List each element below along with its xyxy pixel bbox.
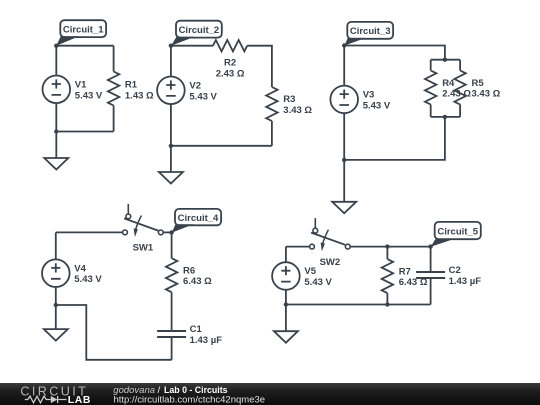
resistor R2 <box>213 40 247 79</box>
ground circuit 3 <box>332 160 356 213</box>
switch SW1 <box>123 204 164 254</box>
svg-text:R4: R4 <box>442 78 455 89</box>
node Circuit_2 label <box>169 21 222 48</box>
svg-text:Circuit_2: Circuit_2 <box>179 25 220 36</box>
capacitor C1 <box>157 324 222 360</box>
wire bottom circuit 1 <box>54 129 114 133</box>
svg-text:V4: V4 <box>74 263 86 274</box>
svg-text:6.43 Ω: 6.43 Ω <box>183 276 212 287</box>
svg-text:R1: R1 <box>125 80 138 91</box>
svg-text:5.43 V: 5.43 V <box>304 277 332 288</box>
wire top-right circuit 2 <box>247 46 272 87</box>
ground circuit 2 <box>159 146 183 184</box>
wire top circuit 1 <box>56 45 113 47</box>
svg-text:Circuit_3: Circuit_3 <box>350 26 391 37</box>
wire bottom circuit 4 <box>56 305 172 360</box>
footer title line <box>113 385 227 396</box>
footer bar <box>0 383 540 405</box>
resistor R4 <box>425 60 471 117</box>
svg-text:Circuit_4: Circuit_4 <box>178 213 219 224</box>
svg-text:LAB: LAB <box>68 395 91 405</box>
svg-text:Circuit_1: Circuit_1 <box>63 24 104 35</box>
svg-text:1.43 µF: 1.43 µF <box>449 276 482 287</box>
resistor R5 <box>454 60 500 117</box>
voltage source V2 <box>157 46 217 146</box>
resistor R7 <box>382 247 428 305</box>
svg-text:V5: V5 <box>304 266 316 277</box>
svg-text:5.43 V: 5.43 V <box>75 90 103 101</box>
svg-text:http://circuitlab.com/ctchc42n: http://circuitlab.com/ctchc42nqme3e <box>114 394 266 405</box>
voltage source V3 <box>330 46 390 160</box>
wire top circuit 5 <box>286 246 310 248</box>
wire bottom circuit 2 <box>169 144 272 148</box>
capacitor C2 <box>416 247 481 305</box>
svg-text:2.43 Ω: 2.43 Ω <box>442 89 471 100</box>
svg-text:R5: R5 <box>472 78 485 89</box>
wire top circuit 3 <box>344 46 447 62</box>
svg-text:SW1: SW1 <box>133 243 154 254</box>
wire bottom circuit 3 <box>342 117 445 162</box>
wire switch to node circuit 4 <box>163 231 171 233</box>
svg-text:C1: C1 <box>190 324 203 335</box>
node junction V5 bottom <box>284 302 288 306</box>
svg-text:R2: R2 <box>224 58 236 69</box>
svg-text:V3: V3 <box>363 90 375 101</box>
svg-text:1.43 Ω: 1.43 Ω <box>125 90 154 101</box>
ground circuit 1 <box>44 132 68 170</box>
voltage source V1 <box>43 46 103 132</box>
svg-text:2.43 Ω: 2.43 Ω <box>216 68 245 79</box>
svg-text:5.43 V: 5.43 V <box>74 274 102 285</box>
resistor R1 <box>108 46 154 132</box>
node Circuit_4 label <box>169 209 221 235</box>
svg-text:R6: R6 <box>183 265 195 276</box>
svg-text:Circuit_5: Circuit_5 <box>437 226 478 237</box>
wire parallel bracket bottom <box>431 115 460 119</box>
svg-text:1.43 µF: 1.43 µF <box>190 335 223 346</box>
voltage source V4 <box>42 232 102 305</box>
node Circuit_3 label <box>342 22 393 48</box>
switch SW2 <box>310 218 351 268</box>
svg-text:R7: R7 <box>399 266 411 277</box>
svg-text:3.43 Ω: 3.43 Ω <box>472 89 501 100</box>
svg-text:3.43 Ω: 3.43 Ω <box>283 105 312 116</box>
footer logo zigzag and diode <box>25 396 67 403</box>
svg-text:SW2: SW2 <box>320 257 341 268</box>
svg-text:C2: C2 <box>449 265 461 276</box>
node Circuit_1 label <box>54 20 106 48</box>
resistor R6 <box>166 232 212 331</box>
wire top-left circuit 2 <box>171 45 213 47</box>
ground circuit 4 <box>44 305 68 341</box>
svg-text:R3: R3 <box>283 94 295 105</box>
wire bottom circuit 5 <box>286 302 431 306</box>
svg-text:V2: V2 <box>189 81 201 92</box>
wire top circuit 4 <box>56 231 123 233</box>
svg-text:5.43 V: 5.43 V <box>189 91 217 102</box>
voltage source V5 <box>272 247 332 305</box>
svg-text:5.43 V: 5.43 V <box>363 100 391 111</box>
node junction V4 bottom <box>54 303 58 307</box>
node Circuit_5 label <box>428 222 480 249</box>
svg-text:V1: V1 <box>75 80 87 91</box>
ground circuit 5 <box>274 305 298 343</box>
wire parallel bracket top <box>431 59 460 61</box>
resistor R3 <box>266 87 312 146</box>
wire switch to C2 circuit 5 <box>350 244 430 248</box>
